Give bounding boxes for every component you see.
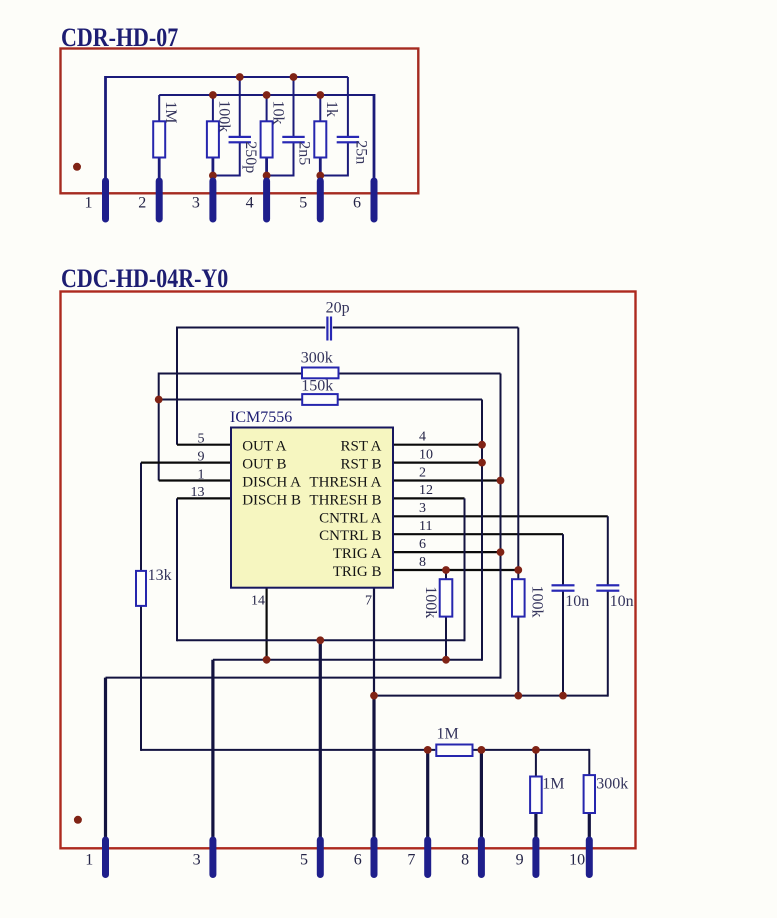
svg-text:12: 12 — [419, 483, 433, 498]
svg-text:3: 3 — [192, 195, 200, 212]
svg-text:OUT B: OUT B — [242, 457, 286, 473]
svg-text:10: 10 — [419, 447, 433, 462]
svg-text:100k: 100k — [422, 586, 439, 618]
svg-text:3: 3 — [419, 501, 426, 516]
svg-text:2: 2 — [138, 195, 146, 212]
svg-text:TRIG A: TRIG A — [333, 546, 382, 562]
svg-text:2n5: 2n5 — [296, 141, 313, 165]
svg-text:1M: 1M — [542, 775, 564, 792]
svg-text:7: 7 — [407, 852, 415, 869]
svg-text:CNTRL A: CNTRL A — [319, 510, 382, 526]
svg-text:10: 10 — [569, 852, 585, 869]
svg-text:7: 7 — [365, 594, 372, 609]
svg-text:5: 5 — [198, 432, 205, 447]
svg-text:1: 1 — [85, 195, 93, 212]
svg-text:4: 4 — [419, 430, 426, 445]
svg-text:CNTRL B: CNTRL B — [319, 528, 381, 544]
svg-text:8: 8 — [419, 555, 426, 570]
svg-text:20p: 20p — [326, 299, 350, 316]
svg-text:TRIG B: TRIG B — [333, 564, 382, 580]
svg-text:300k: 300k — [596, 775, 628, 792]
svg-text:10k: 10k — [269, 101, 286, 125]
svg-text:RST B: RST B — [341, 457, 382, 473]
svg-text:150k: 150k — [301, 378, 333, 395]
svg-text:3: 3 — [193, 852, 201, 869]
svg-text:9: 9 — [198, 449, 205, 464]
svg-text:2: 2 — [419, 465, 426, 480]
svg-text:4: 4 — [246, 195, 254, 212]
svg-text:1M: 1M — [437, 725, 459, 742]
svg-text:DISCH B: DISCH B — [242, 492, 301, 508]
svg-text:5: 5 — [300, 852, 308, 869]
svg-text:THRESH A: THRESH A — [309, 475, 381, 491]
svg-text:THRESH B: THRESH B — [309, 492, 381, 508]
svg-text:OUT A: OUT A — [242, 439, 286, 455]
svg-text:8: 8 — [461, 852, 469, 869]
svg-text:RST A: RST A — [341, 439, 382, 455]
svg-text:CDC-HD-04R-Y0: CDC-HD-04R-Y0 — [61, 264, 228, 293]
svg-text:250p: 250p — [242, 141, 259, 173]
svg-text:1: 1 — [198, 467, 205, 482]
svg-text:9: 9 — [516, 852, 524, 869]
svg-text:10n: 10n — [610, 593, 634, 610]
svg-text:13: 13 — [191, 485, 205, 500]
svg-text:6: 6 — [354, 852, 362, 869]
svg-text:ICM7556: ICM7556 — [230, 409, 292, 426]
svg-text:14: 14 — [251, 594, 265, 609]
svg-text:1: 1 — [85, 852, 93, 869]
svg-text:100k: 100k — [216, 100, 233, 132]
svg-text:10n: 10n — [565, 593, 589, 610]
svg-text:300k: 300k — [301, 349, 333, 366]
svg-text:11: 11 — [419, 519, 432, 534]
svg-text:5: 5 — [299, 195, 307, 212]
svg-text:6: 6 — [353, 195, 361, 212]
svg-text:13k: 13k — [148, 567, 172, 584]
svg-text:6: 6 — [419, 537, 426, 552]
svg-text:1M: 1M — [162, 101, 179, 123]
svg-text:1k: 1k — [323, 101, 340, 117]
svg-text:DISCH A: DISCH A — [242, 475, 301, 491]
svg-text:25n: 25n — [352, 140, 369, 164]
svg-text:100k: 100k — [529, 586, 546, 618]
